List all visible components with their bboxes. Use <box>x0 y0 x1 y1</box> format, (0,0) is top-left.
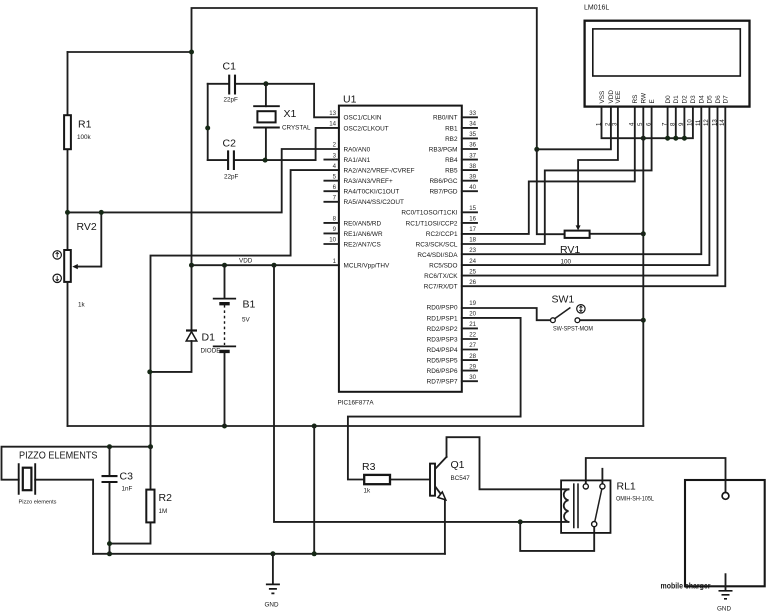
svg-text:5V: 5V <box>242 317 251 324</box>
svg-text:29: 29 <box>469 363 476 370</box>
svg-text:SW-SPST-MOM: SW-SPST-MOM <box>553 326 593 333</box>
wire SW1 to gnd column <box>577 319 643 321</box>
svg-text:RA0/AN0: RA0/AN0 <box>344 146 371 153</box>
svg-text:RA5/AN4/SS/C2OUT: RA5/AN4/SS/C2OUT <box>344 199 404 206</box>
wire Q1 emitter to ground rail <box>444 500 446 554</box>
junction C2 X1 <box>263 158 268 163</box>
svg-text:26: 26 <box>469 279 476 286</box>
svg-text:SW1: SW1 <box>552 294 575 306</box>
chip U1 PIC16F877A <box>324 94 477 407</box>
svg-text:PIC16F877A: PIC16F877A <box>338 400 375 407</box>
junction gnd link top <box>312 424 317 429</box>
svg-text:1M: 1M <box>159 508 168 515</box>
svg-text:RC2/CCP1: RC2/CCP1 <box>426 231 458 238</box>
svg-text:30: 30 <box>469 374 476 381</box>
svg-text:20: 20 <box>469 311 476 318</box>
svg-text:15: 15 <box>469 205 476 212</box>
svg-text:36: 36 <box>469 142 476 149</box>
svg-text:40: 40 <box>469 184 476 191</box>
wire VDD to relay coil <box>274 265 569 522</box>
svg-text:RB2: RB2 <box>445 136 458 143</box>
svg-text:RW: RW <box>641 92 648 103</box>
svg-text:12: 12 <box>703 119 710 126</box>
wire VDD rail to MCLR <box>191 264 339 266</box>
junction R1 top <box>189 50 194 55</box>
svg-text:13: 13 <box>329 110 336 117</box>
svg-text:16: 16 <box>469 216 476 223</box>
svg-text:RD7/PSP7: RD7/PSP7 <box>427 379 458 386</box>
svg-text:1: 1 <box>595 122 602 126</box>
junction C1-C2 link <box>205 126 210 131</box>
svg-text:RD2/PSP2: RD2/PSP2 <box>427 326 458 333</box>
svg-text:GND: GND <box>717 606 731 611</box>
pin names U1 left <box>344 115 415 270</box>
junction VDD rail left <box>189 263 194 268</box>
wire OSC1 to C1/X1 <box>266 84 339 118</box>
svg-text:RA2/AN2/VREF-/CVREF: RA2/AN2/VREF-/CVREF <box>344 168 415 175</box>
svg-text:RV1: RV1 <box>560 244 580 256</box>
svg-text:RC5/SDO: RC5/SDO <box>429 263 457 270</box>
svg-text:23: 23 <box>469 247 476 254</box>
switch SW1 <box>551 294 594 333</box>
wire relay contact to charger <box>586 458 726 492</box>
svg-text:22pF: 22pF <box>224 174 239 181</box>
junction RV1 right <box>641 231 646 236</box>
junction rail C3 <box>107 551 112 556</box>
resistor R3 <box>362 461 430 495</box>
svg-text:14: 14 <box>329 121 336 128</box>
svg-text:R1: R1 <box>78 119 92 131</box>
svg-text:11: 11 <box>695 119 702 126</box>
svg-text:RD5/PSP5: RD5/PSP5 <box>427 358 458 365</box>
svg-text:DIODE: DIODE <box>201 348 221 355</box>
svg-text:RB1: RB1 <box>445 125 458 132</box>
svg-text:RC7/RX/DT: RC7/RX/DT <box>424 284 458 291</box>
piezo transducer <box>19 450 98 506</box>
junction RV2 chain <box>65 210 70 215</box>
wire gnd link to rail <box>313 426 315 554</box>
junction B1 minus <box>222 424 227 429</box>
LCD pin numbers <box>595 119 726 126</box>
junction rail gnd symbol <box>270 551 275 556</box>
wire C1 left to C2 left <box>207 84 209 160</box>
wire LCD D4 to RC4 <box>462 107 702 255</box>
wire RA2 net (piezo to RA2/AN2) <box>151 170 339 447</box>
svg-text:21: 21 <box>469 321 476 328</box>
svg-text:OMIH-SH-105L: OMIH-SH-105L <box>616 496 654 503</box>
svg-text:1k: 1k <box>78 302 86 309</box>
pin names U1 right <box>401 115 458 386</box>
svg-text:R3: R3 <box>362 461 376 473</box>
wire piezo top net <box>2 447 151 480</box>
svg-text:RD0/PSP0: RD0/PSP0 <box>427 305 458 312</box>
svg-text:39: 39 <box>469 173 476 180</box>
svg-text:C3: C3 <box>120 471 134 483</box>
svg-text:R2: R2 <box>159 492 173 504</box>
svg-text:34: 34 <box>469 121 476 128</box>
svg-text:10: 10 <box>687 119 694 126</box>
svg-text:RL1: RL1 <box>617 481 636 493</box>
wire RD0 to SW1 <box>462 308 553 320</box>
capacitor C2 <box>208 138 265 181</box>
svg-text:RB5: RB5 <box>445 168 458 175</box>
junction piezo C3 <box>107 444 112 449</box>
svg-text:25: 25 <box>469 268 476 275</box>
svg-text:D5: D5 <box>707 95 714 104</box>
svg-text:RD3/PSP3: RD3/PSP3 <box>427 336 458 343</box>
svg-text:U1: U1 <box>343 94 357 106</box>
svg-text:28: 28 <box>469 353 476 360</box>
junction VDD branch <box>534 147 539 152</box>
svg-text:1k: 1k <box>364 488 372 495</box>
resistor R2 <box>146 447 172 523</box>
junction tie C3 <box>107 541 112 546</box>
svg-text:VDD: VDD <box>239 258 253 265</box>
junction piezo R2 <box>148 444 153 449</box>
svg-text:Q1: Q1 <box>451 459 465 471</box>
svg-text:35: 35 <box>469 131 476 138</box>
junction VDD rail B1 <box>222 263 227 268</box>
svg-text:D0: D0 <box>665 95 672 104</box>
LCD pin labels <box>599 90 730 104</box>
svg-text:D3: D3 <box>690 95 697 104</box>
wire OSC2 to C2/X1 <box>265 128 339 160</box>
svg-text:RB7/PGD: RB7/PGD <box>429 189 457 196</box>
relay RL1 <box>561 469 654 533</box>
wire LCD D7 to RC7 <box>462 107 726 287</box>
svg-text:VSS: VSS <box>599 91 606 104</box>
junction rail gnd link <box>312 551 317 556</box>
svg-text:D2: D2 <box>682 95 689 104</box>
svg-text:RB0/INT: RB0/INT <box>433 115 458 122</box>
svg-text:RA3/AN3/VREF+: RA3/AN3/VREF+ <box>344 178 393 185</box>
capacitor C3 <box>102 447 134 493</box>
wire VDD frame top-left <box>68 8 537 265</box>
svg-text:1nF: 1nF <box>122 486 133 493</box>
ground symbol charger <box>717 574 733 611</box>
svg-text:14: 14 <box>719 119 726 126</box>
junction relay common tap <box>518 519 523 524</box>
svg-text:RC3/SCK/SCL: RC3/SCK/SCL <box>416 241 458 248</box>
svg-text:OSC2/CLKOUT: OSC2/CLKOUT <box>344 125 389 132</box>
svg-text:10: 10 <box>329 237 336 244</box>
pin numbers U1 right <box>469 110 476 381</box>
svg-text:RC1/T1OSI/CCP2: RC1/T1OSI/CCP2 <box>406 220 458 227</box>
wire GND line (RV2 bottom to LCD gnd column) <box>68 425 644 427</box>
wire relay common <box>520 522 594 551</box>
wire LCD RW gnd column <box>642 107 644 426</box>
svg-text:GND: GND <box>265 602 279 609</box>
svg-text:22pF: 22pF <box>224 97 239 104</box>
wire LCD gnd bus VSS/RW/D0-D3 <box>602 107 693 139</box>
junction bus RW <box>641 136 646 141</box>
resistor R1 <box>64 52 91 250</box>
crystal X1 <box>253 84 311 160</box>
svg-text:RD6/PSP6: RD6/PSP6 <box>427 368 458 375</box>
svg-text:RV2: RV2 <box>77 221 97 233</box>
svg-text:RE2/AN7/CS: RE2/AN7/CS <box>344 241 381 248</box>
wire RV1 right to gnd column <box>590 233 644 235</box>
svg-text:RC4/SDI/SDA: RC4/SDI/SDA <box>417 252 458 259</box>
pin numbers U1 left <box>329 110 336 265</box>
junction bus D0 <box>665 136 670 141</box>
svg-text:27: 27 <box>469 342 476 349</box>
wire LCD VDD pin2 <box>537 107 611 150</box>
svg-text:RC6/TX/CK: RC6/TX/CK <box>424 273 458 280</box>
wire LCD D5 to RC5 <box>462 107 710 266</box>
wire Q1 collector to relay coil <box>447 437 569 489</box>
svg-text:RA1/AN1: RA1/AN1 <box>344 157 371 164</box>
svg-text:17: 17 <box>469 226 476 233</box>
svg-text:38: 38 <box>469 163 476 170</box>
svg-text:Pizzo elements: Pizzo elements <box>19 500 57 506</box>
svg-text:mobile charger: mobile charger <box>661 581 712 591</box>
potentiometer RV2 <box>53 212 101 426</box>
svg-text:X1: X1 <box>284 108 297 120</box>
svg-text:RA4/T0CKI/C1OUT: RA4/T0CKI/C1OUT <box>344 189 400 196</box>
svg-text:RE0/AN5/RD: RE0/AN5/RD <box>344 220 382 227</box>
wire piezo right lead <box>35 480 93 554</box>
svg-text:VEE: VEE <box>615 91 622 104</box>
mobile charger <box>661 480 765 591</box>
junction bus D2 <box>682 136 687 141</box>
wire LCD D6 to RC6 <box>462 107 718 276</box>
diode D1 <box>150 265 221 372</box>
svg-text:D6: D6 <box>715 95 722 104</box>
wire RD1 to R3 <box>348 318 521 480</box>
wire LCD E to RC3 <box>462 107 652 244</box>
junction D1 to RA2 net <box>147 369 152 374</box>
junction C1 X1 <box>263 81 268 86</box>
capacitor C1 <box>208 61 266 104</box>
svg-text:22: 22 <box>469 332 476 339</box>
svg-text:37: 37 <box>469 152 476 159</box>
svg-text:BC547: BC547 <box>451 475 471 482</box>
wire LCD VEE to RV1 wiper <box>578 107 618 227</box>
svg-text:PIZZO ELEMENTS: PIZZO ELEMENTS <box>19 450 98 462</box>
svg-text:E: E <box>649 99 656 103</box>
battery B1 <box>213 265 256 426</box>
svg-text:18: 18 <box>469 237 476 244</box>
svg-text:100k: 100k <box>77 134 92 141</box>
wire VDD to RV1 left <box>537 149 565 234</box>
junction VDD rail coil feed <box>272 263 277 268</box>
svg-text:100: 100 <box>561 259 572 266</box>
svg-text:D1: D1 <box>673 95 680 104</box>
svg-text:19: 19 <box>469 300 476 307</box>
svg-text:RE1/AN6/WR: RE1/AN6/WR <box>344 231 383 238</box>
wire LCD RS to RC2 <box>462 107 635 234</box>
svg-text:C1: C1 <box>223 61 237 73</box>
svg-text:RD4/PSP4: RD4/PSP4 <box>427 347 458 354</box>
svg-text:D4: D4 <box>699 95 706 104</box>
svg-text:MCLR/Vpp/THV: MCLR/Vpp/THV <box>344 263 391 270</box>
svg-text:33: 33 <box>469 110 476 117</box>
svg-text:CRYSTAL: CRYSTAL <box>282 125 311 132</box>
svg-text:RC0/T1OSO/T1CKI: RC0/T1OSO/T1CKI <box>401 210 457 217</box>
svg-text:B1: B1 <box>243 299 256 311</box>
svg-text:RB3/PGM: RB3/PGM <box>429 146 458 153</box>
junction bus D1 <box>673 136 678 141</box>
svg-text:D7: D7 <box>723 95 730 104</box>
svg-text:13: 13 <box>711 119 718 126</box>
svg-text:LM016L: LM016L <box>584 5 609 12</box>
LCD LM016L <box>584 5 750 107</box>
svg-text:VDD: VDD <box>608 90 615 104</box>
junction RV2 wiper <box>99 210 104 215</box>
svg-text:RS: RS <box>632 95 639 104</box>
svg-text:RB6/PGC: RB6/PGC <box>429 178 457 185</box>
svg-text:24: 24 <box>469 258 476 265</box>
transistor Q1 BC547 <box>430 457 470 500</box>
junction SW1 right <box>641 318 646 323</box>
arrow RV1 wiper <box>576 225 581 230</box>
wire RA0 net (RV2 wiper to RA0/AN0) <box>68 149 339 212</box>
svg-text:C2: C2 <box>223 138 237 150</box>
potentiometer RV1 <box>560 231 590 266</box>
svg-text:RB4: RB4 <box>445 157 458 164</box>
svg-text:D1: D1 <box>202 332 216 344</box>
svg-text:RD1/PSP1: RD1/PSP1 <box>427 315 458 322</box>
wire C3 R2 bottom tie <box>110 482 151 554</box>
svg-text:OSC1/CLKIN: OSC1/CLKIN <box>344 115 382 122</box>
ground symbol center <box>265 554 280 609</box>
wire ground rail bottom <box>93 553 445 555</box>
